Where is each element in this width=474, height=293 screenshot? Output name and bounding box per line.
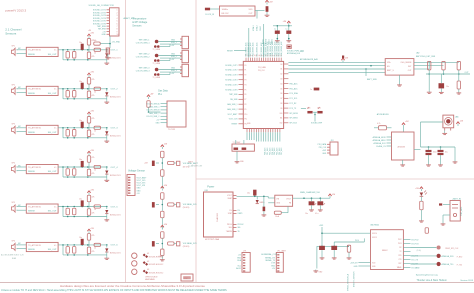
channel 6 pullup resistor R6c [87, 234, 90, 241]
MCU vcc filter cap C22 [275, 31, 280, 34]
svg-text:Gas Data: Gas Data [158, 90, 168, 93]
mounting hole H3 [132, 269, 137, 274]
channel 5 resistor R5a [66, 208, 69, 215]
channel 5 resistor R5d [87, 209, 90, 216]
power rail junctions [303, 197, 305, 199]
svg-text:47k: 47k [92, 235, 95, 237]
svg-text:B11: B11 [280, 118, 283, 120]
channel 4 wire connector to amp [17, 166, 27, 168]
svg-text:SOUND_OUT3: SOUND_OUT3 [225, 75, 237, 77]
svg-text:RX: RX [399, 247, 402, 249]
bluetooth pullup resistor R80 [347, 245, 350, 252]
svg-text:PD6_BUS: PD6_BUS [279, 148, 281, 155]
bluetooth pin2 wire [334, 241, 364, 243]
svg-text:5: 5 [117, 21, 118, 23]
svg-text:ATMEGA_TX0: ATMEGA_TX0 [442, 263, 454, 266]
bias diode pair D30 [106, 48, 109, 54]
svg-text:TS_ATTINY45: TS_ATTINY45 [28, 127, 42, 130]
decoupling cap C27 [314, 88, 320, 91]
svg-text:1k: 1k [94, 53, 96, 55]
channel 2 series resistor R2e [94, 87, 101, 90]
svg-text:+5V: +5V [137, 193, 141, 195]
svg-text:TS_ATTINY45: TS_ATTINY45 [28, 166, 42, 169]
svg-text:PA3_SENSE_ADC: PA3_SENSE_ADC [251, 41, 254, 56]
svg-text:CHG_SENSE: CHG_SENSE [400, 62, 412, 64]
channel 2 wire connector to amp [17, 88, 27, 90]
svg-text:BIAS: BIAS [12, 257, 17, 260]
power wire to boost [267, 196, 269, 198]
bluetooth RX test point TP1 [437, 254, 441, 258]
svg-text:OUT_5: OUT_5 [111, 206, 119, 208]
svg-text:SIG_OUT: SIG_OUT [48, 54, 58, 56]
connector SV1 pin 8 [107, 28, 110, 30]
svg-text:CLKO: CLKO [260, 25, 262, 31]
svg-text:(50.0%): (50.0%) [183, 207, 190, 209]
svg-text:47k: 47k [92, 251, 95, 253]
svg-text:BZX84-C5V1: BZX84-C5V1 [110, 253, 121, 255]
power output wire [237, 195, 269, 197]
lower resistor R54 [457, 81, 460, 89]
PLL pullup supply +5V [148, 97, 150, 99]
svg-text:+5V: +5V [150, 93, 154, 95]
channel 6 output rail wire [58, 244, 107, 246]
voltage divider 2 node junction [162, 204, 164, 206]
svg-text:VOUT: VOUT [227, 195, 232, 197]
channel 3 amplifier module U3 [26, 125, 58, 134]
svg-text:T1_CASE: T1_CASE [153, 48, 161, 51]
svg-text:B5: B5 [281, 88, 283, 90]
svg-text:H3: H3 [147, 269, 149, 271]
flash cap C60 [426, 150, 432, 152]
svg-text:PLL: PLL [158, 94, 163, 96]
PLL junction [148, 111, 150, 113]
svg-text:+5V: +5V [332, 194, 336, 196]
svg-text:B6: B6 [281, 93, 283, 95]
svg-text:PB0_ADC: PB0_ADC [289, 82, 298, 85]
svg-text:B10: B10 [280, 113, 283, 115]
svg-text:+5V: +5V [171, 45, 175, 47]
channel 4 ground [106, 174, 108, 179]
bluetooth caps grounds [321, 250, 323, 256]
svg-text:TX: TX [399, 251, 402, 253]
svg-text:COLOR_SEN_A: COLOR_SEN_A [146, 102, 160, 105]
channel 6 wire connector to amp [17, 244, 27, 246]
svg-text:V+: V+ [54, 167, 57, 169]
MCU vcc filter cap C23 [286, 31, 291, 34]
svg-text:+5V: +5V [90, 189, 94, 191]
channel 5 amplifier module U5 [26, 204, 58, 213]
svg-text:47k: 47k [92, 213, 95, 215]
svg-text:Power: Power [207, 185, 214, 188]
svg-text:GND: GND [354, 266, 359, 268]
channel 1 wire connector to amp [17, 49, 27, 51]
svg-text:VDD: VDD [249, 9, 254, 11]
svg-text:RESET: RESET [227, 50, 234, 52]
svg-text:47k: 47k [92, 197, 95, 199]
svg-text:SPEED_SENSOR_A: SPEED_SENSOR_A [347, 273, 350, 291]
flash supply +5V [403, 125, 405, 127]
svg-text:ATMEGA_SCK: ATMEGA_SCK [374, 142, 387, 145]
svg-text:+5V: +5V [164, 185, 168, 187]
svg-text:JP4: JP4 [331, 140, 334, 142]
svg-text:Voltage Sensor: Voltage Sensor [128, 169, 145, 172]
svg-text:0.1u: 0.1u [315, 213, 318, 215]
svg-text:AUX1: AUX1 [236, 267, 241, 270]
channel 6 wire node to filter [88, 240, 90, 247]
channel 2 junction dots [62, 88, 64, 90]
svg-text:COLOR_SEN_3: COLOR_SEN_3 [136, 71, 150, 73]
MCU right pins [284, 63, 289, 65]
svg-text:SENSE: SENSE [28, 249, 35, 251]
crystal ground [236, 151, 238, 160]
voltage divider 1 protection diode [174, 162, 176, 164]
channel 3 ground [106, 135, 108, 140]
svg-text:SIG_OUT: SIG_OUT [48, 93, 58, 95]
svg-text:SIG_OUT: SIG_OUT [48, 249, 58, 251]
channel 4 resistor R4d [87, 169, 90, 176]
svg-text:RTS: RTS [398, 255, 401, 257]
flash memory IC U$4 [392, 132, 415, 160]
svg-text:VOLT_BATT: VOLT_BATT [227, 113, 238, 116]
svg-text:V+: V+ [54, 206, 57, 208]
svg-text:ATMEGA_MOSI: ATMEGA_MOSI [373, 136, 387, 139]
wire oscillator to MCU pin PA7 [263, 24, 265, 58]
svg-text:10u: 10u [305, 213, 308, 215]
svg-text:SOUND_OUT5: SOUND_OUT5 [93, 21, 106, 23]
svg-text:SOUND_OUT1: SOUND_OUT1 [93, 10, 106, 12]
svg-text:10u: 10u [79, 237, 82, 239]
sense divider resistor R53 [457, 61, 460, 69]
svg-text:47k: 47k [92, 173, 95, 175]
svg-text:U$5 RN42: U$5 RN42 [370, 225, 379, 227]
svg-text:PIO3: PIO3 [398, 243, 402, 245]
svg-text:FRM: FRM [184, 278, 188, 280]
svg-text:VOLTAGE_3V3: VOLTAGE_3V3 [183, 242, 198, 245]
connector SV1 pin 4 [107, 17, 110, 19]
svg-text:47k: 47k [92, 157, 95, 159]
svg-text:SIG_OUT: SIG_OUT [48, 171, 58, 173]
svg-text:SNS_1: SNS_1 [171, 42, 177, 44]
mounting hole H2 pad marks [143, 261, 146, 264]
channel 2 resistor R2d [87, 91, 90, 98]
svg-text:1u: 1u [274, 28, 276, 30]
channel 1 resistor R1b [73, 52, 76, 59]
channel 4 supply +5V [88, 153, 90, 155]
channel 2 resistor R2a [66, 91, 69, 98]
flash output pin wire [414, 149, 421, 151]
connector SV1 pin 3 [107, 14, 110, 16]
svg-text:P_RX0: P_RX0 [457, 257, 462, 259]
sensor 3 connector J3 [182, 64, 189, 76]
decoupling cap C25 polarity mark [308, 107, 310, 109]
svg-text:GND: GND [156, 123, 161, 125]
svg-text:B3: B3 [281, 79, 283, 81]
status LED supply +5V [420, 189, 422, 191]
svg-text:HARDWARE: HARDWARE [145, 278, 156, 281]
svg-text:10u: 10u [79, 199, 82, 201]
svg-text:GND: GND [322, 153, 327, 155]
svg-text:U$6: U$6 [455, 117, 458, 119]
svg-text:1u: 1u [286, 28, 288, 30]
PLL IC pin wire 7 [161, 122, 168, 124]
voltage divider 3 filter cap C43 [152, 241, 155, 246]
channel 3 lower rail wire [62, 128, 64, 138]
status LED resistor R81 [420, 201, 423, 210]
svg-text:3: 3 [117, 15, 118, 17]
svg-text:+5V: +5V [405, 121, 409, 123]
svg-text:GPIO4: GPIO4 [372, 233, 377, 235]
svg-text:P0: P0 [245, 65, 247, 67]
sensor 2 connector J2 [182, 50, 189, 62]
svg-text:MOUNT-HOLE3.2: MOUNT-HOLE3.2 [149, 264, 163, 266]
svg-text:OUT: OUT [408, 70, 413, 72]
svg-text:4: 4 [117, 18, 118, 20]
svg-text:CTS: CTS [398, 259, 401, 261]
connector SV1 pin 10 [107, 33, 110, 35]
power IC right pins group3 [233, 224, 237, 226]
channel 2 capacitor C2 electrolytic [81, 83, 84, 89]
svg-text:SENSE: SENSE [28, 93, 35, 95]
channel 5 zener diode D5 [106, 207, 108, 210]
supply +5V battery monitor [342, 60, 344, 62]
svg-text:BZX84-C5V1: BZX84-C5V1 [110, 214, 121, 216]
power rail cap C72 ground [319, 205, 321, 208]
channel 1 resistor R1d [87, 52, 90, 59]
channel 5 supply +5V [88, 193, 90, 195]
svg-text:+5V: +5V [171, 73, 175, 75]
svg-text:+5V: +5V [164, 224, 168, 226]
svg-text:+3V3: +3V3 [322, 150, 326, 152]
channel 5 output rail wire [58, 206, 107, 208]
svg-text:BATT:: BATT: [188, 160, 193, 163]
svg-text:GND: GND [247, 123, 251, 125]
svg-text:GND: GND [237, 257, 242, 259]
svg-text:P6: P6 [245, 94, 247, 96]
svg-text:GPIO5: GPIO5 [372, 237, 377, 239]
status LED ground [420, 210, 422, 220]
svg-text:BZX84-C5V1: BZX84-C5V1 [110, 97, 121, 99]
svg-text:COLOR_SEN_2: COLOR_SEN_2 [136, 57, 150, 59]
svg-text:powerIV 2013.3: powerIV 2013.3 [5, 8, 26, 12]
channel 4 series resistor R4e [94, 165, 101, 168]
svg-text:PB1_ADC: PB1_ADC [289, 87, 298, 90]
svg-text:1k: 1k [94, 170, 96, 172]
svg-text:SPI_MISO: SPI_MISO [289, 118, 298, 120]
svg-text:AT45DB161D: AT45DB161D [377, 113, 390, 116]
battery monitor IC U$2 [385, 59, 414, 76]
sensor 1 connector J1 [182, 36, 189, 48]
svg-text:+5V: +5V [238, 255, 242, 257]
svg-text:100n: 100n [433, 152, 437, 154]
voltage divider 2 series resistor R45 [168, 203, 175, 206]
channel 4 lower rail wire [62, 167, 64, 177]
svg-text:NIMH_CHARGER_5V0: NIMH_CHARGER_5V0 [300, 191, 320, 194]
svg-text:9: 9 [117, 31, 118, 33]
svg-text:P8: P8 [245, 104, 247, 106]
bluetooth TX test point TP2 [437, 262, 441, 266]
svg-text:XTAL1: XTAL1 [252, 25, 255, 31]
svg-text:PA16_SENSE_ADC: PA16_SENSE_ADC [280, 41, 283, 57]
filter cap C51 electrolytic [439, 83, 445, 88]
flash pin wire 2 [387, 139, 392, 141]
channel 3 wire node to filter [88, 123, 90, 130]
battery connector wires [443, 204, 450, 206]
svg-text:GND: GND [240, 161, 245, 163]
connector SV1 pin 1 [107, 9, 110, 11]
power output diode D70 [256, 196, 258, 199]
channel 2 pullup resistor R2c [87, 78, 90, 85]
voltage divider 3 resistor R47 [161, 232, 164, 239]
wire vcc filter rail [273, 25, 292, 27]
svg-text:VOLT_BATT: VOLT_BATT [137, 176, 148, 179]
svg-text:PIO2: PIO2 [398, 239, 402, 241]
svg-text:Thunder Line & Stam Hudson: Thunder Line & Stam Hudson [417, 279, 448, 282]
svg-text:TMP_SNS_3: TMP_SNS_3 [138, 68, 149, 70]
oscillator supply +5V [266, 2, 268, 4]
voltage divider 3 node junction [162, 243, 164, 245]
svg-text:10u: 10u [446, 86, 449, 88]
power rail cap C71 [309, 201, 315, 205]
svg-text:WAKE: WAKE [397, 266, 402, 269]
svg-text:16MHz: 16MHz [222, 9, 228, 11]
channel 4 amplifier module U4 [26, 165, 58, 174]
svg-text:47k: 47k [92, 118, 95, 120]
svg-text:T1_CASE: T1_CASE [153, 62, 161, 65]
channel 6 lower rail wire [62, 245, 64, 255]
channel 1 output rail wire [58, 49, 107, 51]
power rail cap C71 ground [311, 205, 313, 208]
svg-text:PG: PG [238, 210, 241, 212]
sense divider resistor R52 [442, 61, 445, 69]
power output cap C70 electrolytic [253, 190, 256, 196]
svg-text:COLOR_SEN_1: COLOR_SEN_1 [136, 43, 150, 45]
svg-text:AT45DB: AT45DB [398, 146, 406, 149]
svg-text:SP2: SP2 [12, 85, 15, 87]
power regulator IC U$3 [204, 192, 234, 237]
channel 2 wire node to filter [88, 84, 90, 91]
svg-text:1u: 1u [310, 89, 312, 91]
channel 5 lower rail wire [62, 207, 64, 217]
svg-text:FB: FB [289, 202, 292, 204]
svg-text:GND: GND [171, 39, 176, 41]
power rail cap C72 [317, 201, 323, 205]
svg-text:OUT_6: OUT_6 [111, 245, 119, 247]
oscillator decoupling cap C21 [266, 6, 269, 12]
svg-text:SCL: SCL [238, 265, 242, 267]
vcc filter cap grounds [276, 34, 278, 38]
channel 1 output junction [106, 49, 108, 51]
svg-text:SOUND_GB_CONNECTOR: SOUND_GB_CONNECTOR [89, 5, 115, 7]
svg-text:THERM: THERM [226, 231, 233, 233]
channel 4 capacitor C4 electrolytic [81, 161, 84, 167]
bias ground [107, 54, 109, 56]
mounting hole H3 pad marks [143, 270, 146, 273]
voltage divider 3 supply +5V [161, 227, 163, 229]
svg-text:1k: 1k [94, 131, 96, 133]
svg-text:PIO4: PIO4 [355, 240, 359, 242]
MCU top pins [245, 58, 247, 62]
svg-text:+3V3_BT: +3V3_BT [350, 262, 358, 264]
status LED D80 [420, 193, 424, 197]
svg-text:B4: B4 [281, 83, 283, 85]
power mid component [263, 207, 266, 212]
channel 6 output junction [106, 244, 108, 246]
channel 6 ground [106, 252, 108, 257]
svg-text:+5V: +5V [164, 143, 168, 145]
svg-text:JP1: JP1 [243, 250, 246, 252]
voltage divider 1 resistor R41 [161, 151, 164, 158]
channel 2 zener diode D2 [106, 89, 108, 92]
svg-text:10u: 10u [79, 159, 82, 161]
svg-text:V+: V+ [54, 245, 57, 247]
voltage divider 3 diode [174, 243, 176, 245]
svg-text:BZX84-C5V1: BZX84-C5V1 [110, 175, 121, 177]
flash cap C61 [438, 150, 444, 152]
svg-text:P9: P9 [245, 109, 247, 111]
svg-text:PD7_BUS: PD7_BUS [281, 148, 283, 155]
svg-text:1k: 1k [94, 209, 96, 211]
battery monitor ground [399, 75, 401, 83]
channel 4 junction dots [62, 166, 64, 168]
buzzer SG1 [443, 115, 454, 128]
svg-text:PD3_BUS: PD3_BUS [272, 148, 274, 155]
channel 2 supply +5V [88, 75, 90, 77]
svg-text:PC3_TX: PC3_TX [289, 108, 297, 110]
channel 2 lower rail wire [62, 89, 64, 99]
wire cap to oscillator [210, 8, 219, 10]
vcc filter supply +3V3 [288, 23, 290, 25]
svg-text:BRIGHT_SENSOR: BRIGHT_SENSOR [354, 271, 356, 287]
svg-text:+5V: +5V [415, 188, 419, 190]
svg-text:SOUND_OUT5: SOUND_OUT5 [225, 84, 237, 86]
svg-text:SERIAL_TX: SERIAL_TX [265, 259, 275, 262]
channel 5 capacitor C5 electrolytic [81, 200, 84, 206]
channel 1 zener diode D1 [106, 50, 108, 53]
PLL IC pin wire 4 [161, 112, 168, 114]
channel 3 output rail wire [58, 127, 107, 129]
channel 6 resistor R6d [87, 247, 90, 254]
svg-text:V+: V+ [54, 128, 57, 130]
svg-text:SPI_MOSI: SPI_MOSI [289, 113, 298, 115]
svg-text:+5V: +5V [102, 31, 106, 33]
svg-text:SIG_OUT: SIG_OUT [48, 211, 58, 213]
svg-text:SOUND_OUT1: SOUND_OUT1 [225, 65, 237, 67]
channel 1 lower rail wire [62, 50, 64, 60]
svg-text:OUT: OUT [249, 13, 254, 15]
svg-text:10u: 10u [247, 193, 250, 195]
channel 1 series resistor R1e [94, 48, 101, 51]
voltage divider 3 lower resistor R49 [161, 249, 164, 256]
svg-text:V+: V+ [54, 50, 57, 52]
svg-text:MOUNT-HOLE3.2: MOUNT-HOLE3.2 [149, 273, 163, 275]
svg-text:U$3: U$3 [205, 190, 208, 192]
channel 4 wire node to filter [88, 162, 90, 169]
svg-text:COLOR_SEN_C: COLOR_SEN_C [146, 116, 160, 118]
svg-text:PD1_BUS: PD1_BUS [267, 148, 269, 155]
status LED resistor R82 [425, 228, 428, 234]
PLL IC pin wire 5 [161, 115, 168, 117]
frame divider vertical left section [125, 0, 127, 283]
bias resistor R30 [94, 42, 101, 45]
svg-text:PC0_SDA: PC0_SDA [289, 92, 298, 95]
PLL IC pin wire 3 [161, 109, 168, 111]
svg-text:10: 10 [117, 34, 119, 36]
channel 4 output rail wire [58, 166, 107, 168]
svg-text:(2.0k): (2.0k) [417, 250, 422, 252]
channel 2 microphone connector SP2 [12, 87, 16, 94]
voltage divider 1 node junction [162, 162, 164, 164]
microcontroller U$1 ATXMEGA128 body [243, 61, 283, 128]
